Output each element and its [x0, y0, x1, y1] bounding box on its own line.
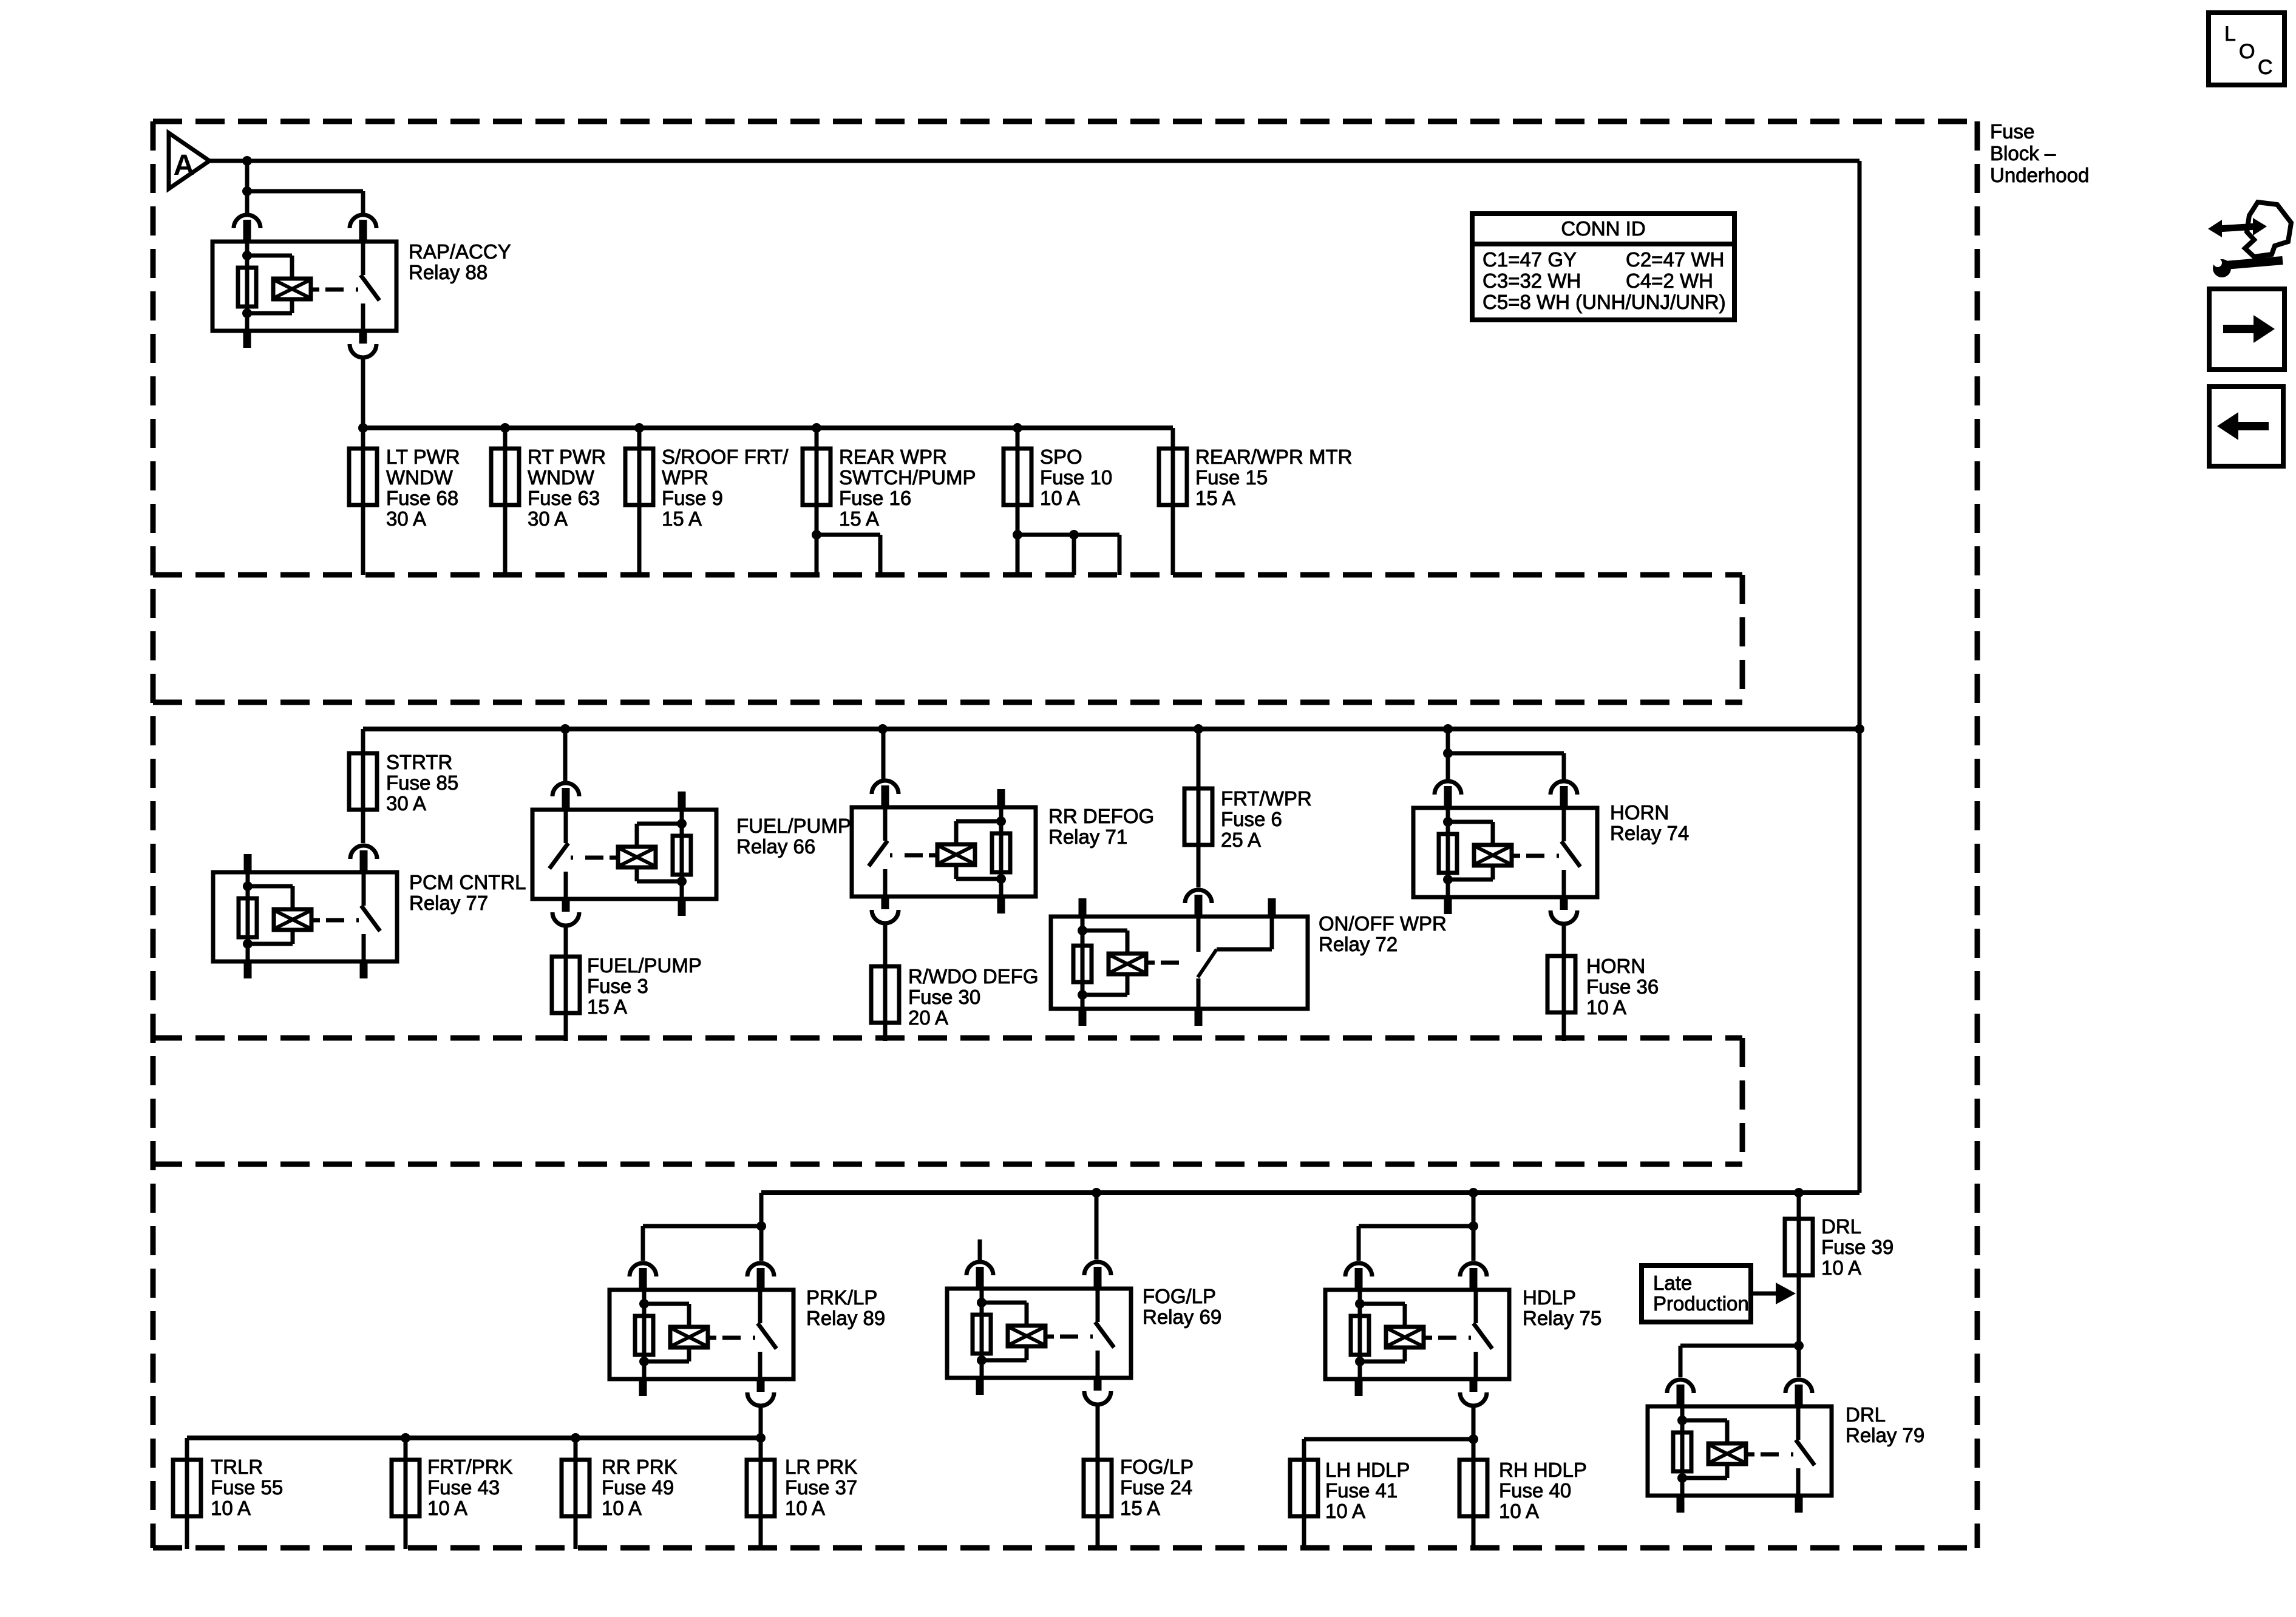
svg-text:SPO: SPO: [1040, 446, 1082, 468]
svg-text:HORN: HORN: [1610, 801, 1669, 824]
svg-text:Relay 89: Relay 89: [806, 1307, 885, 1329]
svg-text:C3=32 WH: C3=32 WH: [1483, 269, 1581, 292]
svg-text:Fuse 37: Fuse 37: [785, 1476, 857, 1499]
svg-text:10 A: 10 A: [1586, 996, 1626, 1019]
svg-text:Fuse 30: Fuse 30: [908, 986, 980, 1008]
svg-text:DRL: DRL: [1846, 1403, 1886, 1426]
svg-text:RT PWR: RT PWR: [528, 446, 606, 468]
svg-text:HDLP: HDLP: [1523, 1286, 1576, 1309]
svg-text:DRL: DRL: [1821, 1215, 1861, 1238]
svg-text:REAR/WPR MTR: REAR/WPR MTR: [1195, 446, 1353, 468]
svg-text:STRTR: STRTR: [386, 751, 452, 773]
svg-text:C5=8 WH (UNH/UNJ/UNR): C5=8 WH (UNH/UNJ/UNR): [1483, 291, 1726, 313]
svg-text:Relay 72: Relay 72: [1319, 933, 1398, 955]
svg-text:RR PRK: RR PRK: [602, 1456, 678, 1478]
svg-text:Fuse 39: Fuse 39: [1821, 1236, 1894, 1258]
svg-text:Fuse: Fuse: [1990, 120, 2034, 143]
svg-text:C1=47 GY: C1=47 GY: [1483, 248, 1577, 271]
svg-text:Block –: Block –: [1990, 142, 2056, 164]
svg-text:Fuse 9: Fuse 9: [662, 487, 723, 509]
svg-text:RAP/ACCY: RAP/ACCY: [409, 240, 511, 263]
svg-text:Relay 75: Relay 75: [1523, 1307, 1601, 1329]
svg-text:S/ROOF FRT/: S/ROOF FRT/: [662, 446, 789, 468]
svg-text:Fuse 49: Fuse 49: [602, 1476, 674, 1499]
svg-text:10 A: 10 A: [1821, 1256, 1861, 1279]
svg-text:Relay 77: Relay 77: [409, 892, 488, 914]
svg-text:A: A: [174, 149, 195, 181]
svg-text:WNDW: WNDW: [386, 466, 453, 489]
svg-text:LH HDLP: LH HDLP: [1325, 1459, 1410, 1481]
svg-text:10 A: 10 A: [785, 1497, 825, 1519]
svg-text:Fuse 68: Fuse 68: [386, 487, 458, 509]
svg-text:Relay 74: Relay 74: [1610, 822, 1689, 844]
svg-text:Relay 79: Relay 79: [1846, 1424, 1924, 1446]
svg-text:Relay 69: Relay 69: [1143, 1306, 1221, 1328]
svg-text:25 A: 25 A: [1221, 829, 1261, 851]
svg-text:PRK/LP: PRK/LP: [806, 1286, 877, 1309]
svg-text:10 A: 10 A: [1325, 1500, 1365, 1522]
svg-text:10 A: 10 A: [427, 1497, 467, 1519]
svg-text:15 A: 15 A: [839, 507, 879, 530]
svg-text:Fuse 16: Fuse 16: [839, 487, 911, 509]
svg-text:Production: Production: [1653, 1292, 1749, 1315]
svg-text:15 A: 15 A: [1195, 487, 1235, 509]
svg-text:SWTCH/PUMP: SWTCH/PUMP: [839, 466, 976, 489]
svg-text:C4=2 WH: C4=2 WH: [1626, 269, 1713, 292]
svg-text:FUEL/PUMP: FUEL/PUMP: [587, 954, 702, 977]
svg-text:15 A: 15 A: [1120, 1497, 1160, 1519]
svg-text:CONN ID: CONN ID: [1561, 217, 1645, 240]
svg-text:FOG/LP: FOG/LP: [1143, 1285, 1216, 1307]
svg-text:O: O: [2239, 40, 2255, 63]
svg-text:R/WDO DEFG: R/WDO DEFG: [908, 965, 1038, 988]
svg-text:HORN: HORN: [1586, 955, 1645, 977]
svg-text:TRLR: TRLR: [211, 1456, 263, 1478]
svg-text:Fuse 10: Fuse 10: [1040, 466, 1112, 489]
svg-text:20 A: 20 A: [908, 1006, 948, 1029]
svg-text:FOG/LP: FOG/LP: [1120, 1456, 1194, 1478]
svg-text:Fuse 43: Fuse 43: [427, 1476, 500, 1499]
svg-text:Fuse 40: Fuse 40: [1499, 1479, 1571, 1502]
svg-text:30 A: 30 A: [386, 792, 426, 815]
svg-text:PCM CNTRL: PCM CNTRL: [409, 871, 526, 893]
svg-text:10 A: 10 A: [1499, 1500, 1539, 1522]
svg-text:15 A: 15 A: [662, 507, 702, 530]
svg-text:Fuse 15: Fuse 15: [1195, 466, 1268, 489]
svg-text:FRT/WPR: FRT/WPR: [1221, 787, 1312, 810]
svg-text:Fuse 36: Fuse 36: [1586, 975, 1659, 998]
svg-text:C2=47 WH: C2=47 WH: [1626, 248, 1724, 271]
svg-text:Relay 88: Relay 88: [409, 261, 487, 283]
svg-text:Underhood: Underhood: [1990, 164, 2089, 186]
svg-text:L: L: [2224, 22, 2236, 46]
svg-text:ON/OFF WPR: ON/OFF WPR: [1319, 912, 1447, 935]
svg-text:Relay 71: Relay 71: [1048, 825, 1127, 848]
svg-text:WPR: WPR: [662, 466, 708, 489]
svg-text:30 A: 30 A: [528, 507, 568, 530]
svg-text:C: C: [2258, 56, 2273, 79]
svg-text:10 A: 10 A: [1040, 487, 1080, 509]
svg-text:LR PRK: LR PRK: [785, 1456, 857, 1478]
svg-text:10 A: 10 A: [211, 1497, 251, 1519]
svg-text:Late: Late: [1653, 1272, 1692, 1294]
svg-text:Fuse 55: Fuse 55: [211, 1476, 283, 1499]
svg-text:Relay 66: Relay 66: [736, 835, 815, 858]
svg-text:RH HDLP: RH HDLP: [1499, 1459, 1587, 1481]
svg-text:15 A: 15 A: [587, 995, 627, 1018]
svg-text:LT PWR: LT PWR: [386, 446, 460, 468]
svg-text:RR DEFOG: RR DEFOG: [1048, 805, 1154, 827]
svg-text:Fuse 6: Fuse 6: [1221, 808, 1282, 830]
svg-text:FRT/PRK: FRT/PRK: [427, 1456, 513, 1478]
svg-text:Fuse 24: Fuse 24: [1120, 1476, 1192, 1499]
svg-text:Fuse 63: Fuse 63: [528, 487, 600, 509]
svg-text:Fuse 41: Fuse 41: [1325, 1479, 1398, 1502]
svg-text:Fuse 3: Fuse 3: [587, 975, 648, 997]
svg-text:REAR WPR: REAR WPR: [839, 446, 947, 468]
svg-text:Fuse 85: Fuse 85: [386, 771, 458, 794]
svg-text:FUEL/PUMP: FUEL/PUMP: [736, 815, 851, 837]
svg-text:30 A: 30 A: [386, 507, 426, 530]
svg-text:10 A: 10 A: [602, 1497, 642, 1519]
svg-text:WNDW: WNDW: [528, 466, 595, 489]
